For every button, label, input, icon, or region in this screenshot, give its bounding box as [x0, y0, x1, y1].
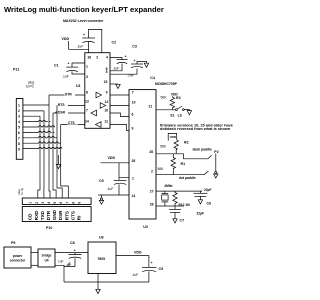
IC U3 MC68HC705P box	[129, 82, 178, 229]
svg-text:C1: C1	[54, 64, 59, 68]
svg-text:8: 8	[71, 202, 75, 204]
svg-text:21: 21	[149, 105, 153, 109]
svg-text:MC68HC705P: MC68HC705P	[155, 82, 178, 86]
wire U3 pin 27 osc1	[156, 190, 202, 192]
svg-text:16: 16	[87, 56, 91, 60]
DSR vertical wire and to P10 pin5	[53, 113, 56, 198]
ground arrow at C6	[198, 200, 202, 204]
svg-text:P10: P10	[46, 226, 52, 230]
svg-text:6: 6	[59, 202, 63, 204]
svg-text:56K: 56K	[158, 167, 165, 171]
svg-text:3: 3	[18, 114, 20, 118]
svg-text:RI: RI	[77, 216, 82, 221]
crossover bump column x60.7 row9	[59, 147, 62, 148]
svg-text:2: 2	[18, 109, 20, 113]
wire P11 row8	[23, 142, 61, 144]
svg-text:C7: C7	[180, 218, 185, 222]
wire U1 pin10 to U3 pin6	[110, 113, 129, 117]
svg-text:power: power	[13, 254, 23, 258]
svg-text:to PC: to PC	[26, 85, 35, 89]
CTS vertical wire and to P10 pin7	[61, 125, 69, 199]
svg-text:7: 7	[132, 90, 134, 94]
svg-text:3: 3	[86, 75, 88, 79]
wire CTS to U1 pin 14	[61, 124, 85, 126]
wire RTS to U1 pin 13	[57, 105, 85, 107]
resistor R1 pullup (dot)	[158, 154, 186, 175]
DTR vertical wire to P10 pin4	[49, 95, 50, 198]
svg-text:WriteLog multi-function keyer/: WriteLog multi-function keyer/LPT expand…	[4, 5, 164, 14]
wire P11 row9	[23, 148, 61, 150]
svg-text:22pF: 22pF	[197, 212, 204, 216]
svg-text:11: 11	[104, 120, 108, 124]
signal label DTR	[65, 92, 76, 97]
svg-text:7: 7	[65, 202, 69, 204]
wire VDD branch to U3 pin 1 (reset)	[119, 163, 129, 180]
svg-text:12: 12	[105, 100, 109, 104]
svg-text:R3: R3	[176, 96, 181, 100]
svg-text:7805: 7805	[97, 257, 105, 261]
svg-text:CTS: CTS	[68, 121, 75, 125]
wire DTR to U1 pin 8	[49, 94, 85, 96]
svg-text:DSR: DSR	[58, 111, 66, 115]
vertical wire to P10 pin2	[38, 116, 40, 198]
svg-text:C5: C5	[99, 179, 104, 183]
wire P11 row1	[23, 104, 49, 106]
svg-text:S1: S1	[170, 113, 174, 117]
svg-text:1: 1	[29, 202, 33, 204]
wire 7805 ground pin	[97, 274, 99, 290]
svg-text:8: 8	[86, 91, 88, 95]
wire P11 row7	[23, 137, 57, 139]
capacitor C5	[99, 179, 127, 191]
svg-text:9: 9	[132, 127, 134, 131]
svg-text:5: 5	[18, 125, 20, 129]
capacitor C1 (U1 pins 1-3)	[54, 62, 85, 79]
svg-text:TXD: TXD	[40, 210, 45, 220]
svg-text:VDD: VDD	[134, 250, 142, 254]
svg-text:7: 7	[86, 108, 88, 112]
svg-text:10: 10	[104, 108, 108, 112]
crossover bumps column x44	[43, 120, 46, 148]
svg-text:56K: 56K	[160, 144, 167, 148]
svg-text:GND: GND	[52, 209, 57, 220]
capacitor C8	[58, 241, 82, 267]
wire bridge bottom to ground rail	[55, 265, 64, 282]
wire DSR to U1 pin 7	[53, 112, 85, 114]
svg-text:2: 2	[35, 202, 39, 204]
crossover bumps column x49	[48, 126, 51, 149]
svg-text:9: 9	[78, 202, 82, 204]
ground arrow at C7	[173, 219, 177, 223]
svg-text:DTR: DTR	[46, 210, 51, 220]
wire P11 row4	[23, 121, 50, 123]
signal label DSR	[58, 110, 69, 115]
IC U6 7805 box	[88, 236, 116, 274]
svg-text:P9: P9	[11, 241, 15, 245]
svg-text:CTS: CTS	[70, 211, 75, 220]
svg-text:.1uF: .1uF	[77, 45, 84, 49]
connector P11 box	[16, 99, 23, 160]
svg-text:MAX232 Level converter: MAX232 Level converter	[63, 19, 104, 23]
svg-text:C4: C4	[150, 76, 155, 80]
signal label CTS	[68, 120, 79, 125]
svg-text:56K: 56K	[161, 96, 168, 100]
crossover bumps column x57	[56, 112, 59, 149]
ground arrow at jack	[214, 174, 218, 178]
svg-text:VDD: VDD	[62, 37, 70, 41]
wire C2 leads and top rail to U1 pins 16,2	[89, 29, 102, 52]
svg-text:1uF: 1uF	[58, 259, 64, 263]
svg-text:26: 26	[150, 202, 154, 206]
svg-text:dot paddle: dot paddle	[179, 176, 196, 180]
capacitor C7 22pF	[169, 206, 204, 222]
wire VDD to U3 pin 28	[101, 162, 130, 164]
bridge U4 box	[38, 249, 55, 267]
ground arrow below 7805	[96, 289, 100, 293]
svg-text:C8: C8	[70, 241, 75, 245]
ground stem and arrow left area	[57, 155, 59, 165]
svg-text:+: +	[74, 249, 76, 253]
wire VDD to C2	[69, 41, 89, 49]
power connector box	[4, 247, 31, 268]
svg-text:27: 27	[150, 190, 154, 194]
svg-text:14: 14	[132, 194, 136, 198]
svg-text:VDD: VDD	[108, 156, 116, 160]
wire C5 bottom to ground rail and U3 pin 14	[98, 184, 129, 197]
svg-text:15: 15	[104, 80, 108, 84]
svg-text:9: 9	[18, 147, 20, 151]
wire P11 row3	[23, 115, 40, 117]
signal label RTS	[58, 102, 69, 107]
connector P10 pin-number box	[22, 198, 91, 205]
svg-text:9: 9	[106, 91, 108, 95]
capacitor C9	[132, 261, 164, 282]
resistor R2 pullup (dash)	[160, 133, 189, 153]
svg-text:DTR: DTR	[65, 93, 72, 97]
ground arrow right of C4	[144, 63, 148, 67]
svg-text:6: 6	[106, 67, 108, 71]
capacitor C2	[77, 33, 117, 49]
svg-text:22pF: 22pF	[204, 188, 211, 192]
crystal Y1 4MHz	[162, 184, 173, 206]
svg-text:LS: LS	[178, 113, 183, 117]
wire U3 pin 2 dot paddle	[156, 174, 204, 176]
vertical wire to P10 pin3	[43, 111, 45, 198]
svg-text:.1uF: .1uF	[127, 73, 134, 77]
svg-text:1: 1	[18, 103, 20, 107]
P10 pin numbers 1-9 (rotated)	[29, 202, 82, 204]
svg-text:1: 1	[132, 177, 134, 181]
svg-text:3: 3	[41, 202, 45, 204]
resistor R10 1M	[173, 191, 190, 207]
svg-text:U1: U1	[76, 84, 81, 88]
crossover bumps column x53	[52, 126, 55, 149]
ground rail bottom	[64, 281, 149, 283]
svg-text:+: +	[151, 261, 153, 265]
wire power to bridge bottom	[31, 264, 38, 266]
svg-text:dash paddle: dash paddle	[193, 148, 212, 152]
wire U3 pin 20 dash paddle	[156, 154, 208, 159]
svg-text:6: 6	[18, 131, 20, 135]
svg-text:+: +	[68, 62, 70, 66]
wire 7805 output VDD	[116, 256, 149, 268]
svg-text:13: 13	[85, 99, 89, 103]
svg-text:RTS: RTS	[58, 103, 65, 107]
capacitor C3 (U1 pins 4-6)	[110, 45, 137, 71]
svg-text:4: 4	[47, 202, 51, 204]
svg-text:+: +	[83, 33, 85, 37]
svg-text:.1uF: .1uF	[132, 273, 139, 277]
svg-text:C2: C2	[112, 40, 117, 44]
IC U1 MAX232 box	[76, 53, 110, 129]
wire U1 pin9 to U3 pin7	[110, 94, 129, 96]
svg-text:28: 28	[149, 150, 153, 154]
svg-text:C3: C3	[132, 45, 137, 49]
RTS vertical wire and to P10 pin6	[57, 106, 62, 199]
U1 buffer D (CTS)	[96, 122, 102, 128]
svg-text:6: 6	[132, 113, 134, 117]
svg-text:C6: C6	[207, 202, 212, 206]
wire P11 row5	[23, 126, 55, 128]
svg-text:7: 7	[18, 136, 20, 140]
wire U3 pin 21 to switch	[156, 109, 175, 111]
wire power to bridge top	[31, 252, 38, 254]
U1 buffer C (DSR)	[91, 110, 97, 116]
svg-text:R10 1M: R10 1M	[179, 203, 191, 207]
wire U1 pin11 to U3 pin9	[110, 125, 129, 131]
switch S1	[170, 106, 189, 117]
svg-text:to rig: to rig	[20, 188, 24, 195]
svg-text:5: 5	[53, 202, 57, 204]
wire P11 row6	[23, 131, 54, 133]
crossover bumps column x40	[39, 120, 42, 148]
svg-text:.1uF: .1uF	[107, 187, 114, 191]
svg-text:CD: CD	[28, 213, 33, 220]
svg-text:connector: connector	[10, 259, 26, 263]
svg-text:1: 1	[86, 64, 88, 68]
capacitor C6 22pF	[194, 188, 212, 206]
wire bridge to 7805 input	[55, 252, 88, 254]
wire U1 pin12 to U3 pin10	[110, 105, 129, 107]
svg-text:P2: P2	[214, 150, 218, 154]
svg-text:P11: P11	[13, 68, 19, 72]
svg-text:+: +	[125, 54, 127, 58]
svg-text:R2: R2	[184, 141, 189, 145]
svg-text:U3: U3	[143, 225, 148, 229]
svg-text:+: +	[134, 59, 136, 63]
svg-text:U6: U6	[99, 236, 104, 240]
svg-text:VDD: VDD	[170, 135, 177, 139]
svg-text:bridge: bridge	[42, 254, 52, 258]
svg-text:4: 4	[18, 120, 20, 124]
svg-text:dot/dash reversed from what is: dot/dash reversed from what is shown	[160, 127, 231, 131]
svg-text:10: 10	[132, 100, 136, 104]
svg-text:RTS: RTS	[64, 211, 69, 220]
wire P11 row2	[23, 110, 44, 112]
svg-text:4: 4	[106, 56, 108, 60]
resistor R3 pullup at pin 21	[161, 92, 181, 109]
svg-text:2: 2	[96, 56, 98, 60]
connector P10 signal-name box	[22, 207, 91, 222]
capacitor C4 (U1 pin 5 to ground)	[110, 59, 155, 80]
svg-text:8: 8	[18, 142, 20, 146]
wire U3 pin 26 osc2	[156, 205, 184, 207]
ground arrow at U1 pin 15	[116, 84, 120, 88]
svg-text:28: 28	[132, 159, 136, 163]
P10 signal names (rotated)	[28, 209, 82, 220]
svg-text:.1uF: .1uF	[62, 74, 69, 78]
svg-text:C9: C9	[159, 267, 164, 271]
svg-text:DSR: DSR	[58, 210, 63, 220]
ground symbol circle+triangle left of pin14	[99, 198, 103, 204]
jack P2 contacts	[204, 154, 217, 175]
svg-text:.1uF: .1uF	[113, 66, 120, 70]
svg-text:R1: R1	[181, 162, 186, 166]
svg-text:14: 14	[85, 120, 89, 124]
svg-text:U4: U4	[44, 259, 48, 263]
svg-text:4MHz: 4MHz	[164, 184, 173, 188]
note firmware versions	[160, 124, 233, 131]
svg-text:RXD: RXD	[34, 210, 39, 220]
ground arrow at switch	[187, 111, 191, 115]
wire U1 pin 15 to ground	[110, 83, 118, 85]
U1 buffer B (RTS)	[100, 103, 106, 109]
U1 buffer A (DTR)	[96, 92, 102, 98]
svg-text:2: 2	[151, 170, 153, 174]
